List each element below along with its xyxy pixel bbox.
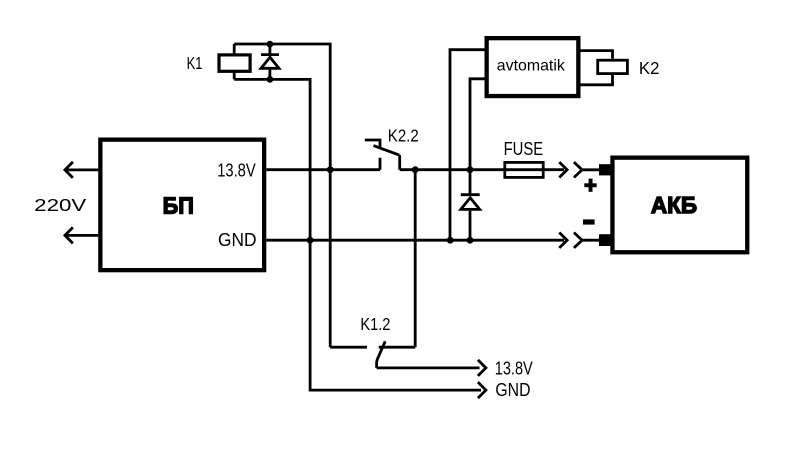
- svg-text:13.8V: 13.8V: [217, 159, 256, 180]
- svg-text:GND: GND: [218, 229, 257, 250]
- svg-text:K2.2: K2.2: [388, 126, 419, 146]
- svg-text:GND: GND: [495, 379, 530, 400]
- svg-text:avtomatik: avtomatik: [497, 58, 566, 75]
- svg-text:K1.2: K1.2: [360, 314, 390, 334]
- svg-text:13.8V: 13.8V: [495, 358, 533, 379]
- svg-text:K2: K2: [639, 58, 660, 78]
- svg-text:FUSE: FUSE: [504, 138, 543, 159]
- svg-text:K1: K1: [187, 53, 203, 73]
- svg-text:БП: БП: [163, 193, 194, 219]
- svg-text:220V: 220V: [34, 195, 86, 215]
- svg-text:АКБ: АКБ: [651, 192, 697, 218]
